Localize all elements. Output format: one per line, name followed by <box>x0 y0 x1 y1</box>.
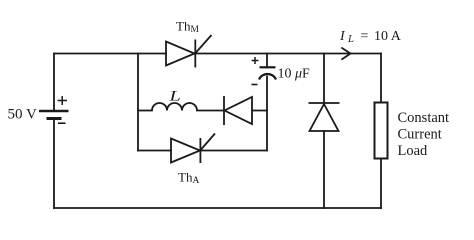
wire left vertical lower <box>53 119 55 208</box>
wire right vertical lower <box>380 158 382 208</box>
wire commutation loop left vertical <box>137 54 139 151</box>
wire middle branch right <box>252 110 267 112</box>
wire left vertical upper <box>53 54 55 111</box>
wire capacitor branch upper <box>266 54 268 68</box>
svg-text:ThA: ThA <box>178 170 199 187</box>
svg-text:ThM: ThM <box>176 19 199 36</box>
svg-text:Constant: Constant <box>398 110 450 126</box>
svg-text:Load: Load <box>398 143 429 159</box>
svg-text:IL=10 A: IL=10 A <box>339 29 402 45</box>
wire top rail right segment <box>196 53 382 55</box>
wire freewheeling branch lower <box>323 131 325 208</box>
capacitor 10 uF <box>259 67 276 79</box>
battery plus sign <box>58 96 68 105</box>
inductor L <box>152 103 197 110</box>
diode D1 (commutation, pointing left) <box>224 96 252 125</box>
wire middle branch mid <box>197 110 224 112</box>
wire bottom rail <box>54 207 381 209</box>
svg-text:50 V: 50 V <box>8 107 37 123</box>
thyristor ThM <box>166 35 212 68</box>
arrow IL on top rail <box>342 48 351 59</box>
wire top rail left segment <box>54 53 166 55</box>
capacitor minus sign <box>252 84 258 86</box>
svg-text:Current: Current <box>398 127 442 143</box>
wire capacitor branch lower <box>266 77 268 151</box>
resistor box constant current load <box>375 103 388 159</box>
svg-text:L: L <box>168 87 181 104</box>
diode D2 (freewheeling, pointing up) <box>309 103 340 131</box>
svg-text:10 μF: 10 μF <box>278 67 311 82</box>
wire right vertical upper <box>380 54 382 104</box>
wire bottom branch <box>138 150 267 152</box>
capacitor plus sign <box>252 57 259 64</box>
wire freewheeling branch upper <box>323 54 325 104</box>
battery 50 V <box>39 111 69 119</box>
thyristor ThA <box>171 134 215 164</box>
wire middle branch left <box>138 110 152 112</box>
battery minus sign <box>58 122 66 124</box>
